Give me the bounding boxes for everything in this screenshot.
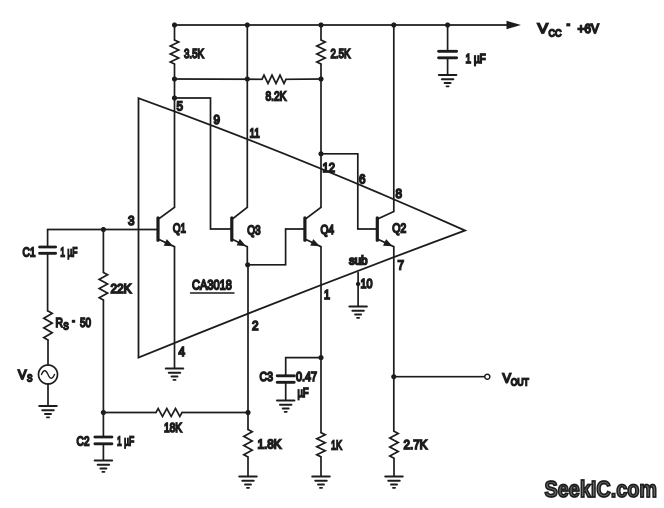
- ground VS: [39, 406, 56, 417]
- label 11: [250, 127, 260, 141]
- svg-text:1K: 1K: [331, 439, 342, 453]
- wire 8.2K row right: [286, 78, 321, 80]
- transistor Q4: [305, 207, 321, 246]
- svg-text:C3: C3: [260, 369, 274, 384]
- node rail/Q2 collector: [391, 22, 396, 27]
- label 1.8K: [258, 437, 283, 452]
- wire substrate pin10 stub: [357, 273, 359, 306]
- label 1K: [331, 439, 342, 453]
- label uF (C3): [298, 387, 309, 401]
- svg-text:3: 3: [128, 213, 135, 228]
- label 1 uF (C2): [117, 435, 134, 449]
- label 5: [177, 99, 184, 114]
- label 9: [214, 112, 221, 127]
- svg-text:50: 50: [80, 317, 91, 331]
- wire Q3 emitter to Q4 base: [248, 229, 305, 265]
- node rail/2.5K: [318, 22, 323, 27]
- svg-text:Q3: Q3: [247, 223, 260, 238]
- source VS sine generator: [39, 365, 58, 384]
- svg-text:8: 8: [396, 186, 403, 201]
- label VCC = +6V: [538, 22, 600, 40]
- capacitor C3: [277, 376, 294, 400]
- resistor 1K: [317, 433, 325, 476]
- wire Q4 emitter drop pin1: [320, 247, 322, 433]
- svg-text:Q2: Q2: [392, 220, 406, 235]
- svg-text:4: 4: [179, 344, 186, 359]
- svg-text:18K: 18K: [164, 421, 182, 436]
- ground substrate: [349, 307, 366, 318]
- label Q3: [247, 223, 260, 238]
- svg-text:OUT: OUT: [511, 377, 529, 388]
- wire C3 branch: [286, 358, 321, 375]
- wire bottom row left: [103, 412, 156, 414]
- label C1: [23, 245, 36, 259]
- label Q1: [173, 222, 186, 236]
- wire input node to Q1 base (pin3): [48, 229, 158, 231]
- label CA3018: [191, 277, 235, 293]
- label 8: [396, 186, 403, 201]
- capacitor C2: [95, 413, 112, 461]
- node 8.2K/pin11: [245, 76, 250, 81]
- svg-text:CA3018: CA3018: [192, 277, 232, 293]
- wire Q1 collector riser pin5: [174, 79, 176, 207]
- node 8.2K/3.5K: [172, 76, 177, 81]
- label sub: [349, 254, 368, 267]
- ground C2: [95, 461, 112, 472]
- svg-text:Q1: Q1: [173, 222, 186, 236]
- label 2.5K: [331, 48, 351, 62]
- resistor RS source resistance: [44, 311, 52, 340]
- svg-text:8.2K: 8.2K: [266, 89, 287, 103]
- ground 1.8K: [239, 477, 256, 488]
- watermark SeekIC.com: [545, 475, 658, 502]
- svg-text:µF: µF: [298, 387, 309, 401]
- resistor 18K: [156, 409, 182, 417]
- label 10: [361, 276, 373, 291]
- resistor 3.5K: [170, 25, 178, 79]
- resistor 1.8K: [244, 413, 252, 477]
- wire RS to VS: [47, 340, 49, 365]
- label 2.7K: [404, 437, 429, 452]
- transistor Q2: [377, 212, 394, 247]
- wire 8.2K row left: [175, 78, 263, 80]
- svg-text:6: 6: [359, 172, 366, 187]
- svg-text:7: 7: [398, 258, 405, 273]
- label 22K: [111, 281, 133, 296]
- svg-text:R: R: [56, 316, 64, 330]
- svg-text:3.5K: 3.5K: [184, 48, 204, 62]
- label 1 uF (bypass): [466, 53, 486, 66]
- svg-text:9: 9: [214, 112, 221, 127]
- label Q2: [392, 220, 406, 235]
- ground 1K: [312, 477, 329, 488]
- node pin10: [356, 282, 360, 286]
- svg-text:Q4: Q4: [321, 223, 335, 238]
- ground Q1 emitter: [166, 369, 183, 380]
- svg-text:SeekIC.com: SeekIC.com: [545, 475, 658, 502]
- label 3: [128, 213, 135, 228]
- svg-text:2: 2: [252, 318, 259, 333]
- svg-text:sub: sub: [349, 254, 368, 267]
- svg-text:1 µF: 1 µF: [466, 53, 486, 66]
- label 3.5K: [184, 48, 204, 62]
- label VOUT: [503, 370, 530, 387]
- svg-text:10: 10: [361, 276, 373, 291]
- label 1 uF (C1): [60, 246, 77, 260]
- label VS: [18, 367, 32, 384]
- svg-text:11: 11: [250, 127, 260, 141]
- resistor 2.5K: [317, 25, 325, 79]
- svg-text:S: S: [27, 373, 32, 384]
- svg-text:+6V: +6V: [578, 22, 600, 37]
- label 8.2K: [266, 89, 287, 103]
- svg-text:1 µF: 1 µF: [60, 246, 77, 260]
- wire Q1 emitter to ground (pin4): [174, 247, 176, 368]
- node pin12 branch: [318, 151, 323, 156]
- node pin5 branch: [172, 95, 177, 100]
- node C3 tap: [318, 355, 323, 360]
- wire Q2 emitter drop pin7: [393, 247, 395, 432]
- label RS = 50: [56, 316, 91, 332]
- svg-text:1: 1: [324, 287, 330, 302]
- svg-text:12: 12: [323, 160, 336, 175]
- resistor 2.7K: [390, 431, 398, 476]
- VCC arrowhead: [507, 21, 522, 29]
- node base/22K: [101, 227, 106, 232]
- transistor Q3: [232, 207, 248, 246]
- transistor Q1: [158, 207, 175, 246]
- label 2: [252, 318, 259, 333]
- svg-text:V: V: [18, 367, 27, 382]
- op-amp triangle CA3018 package outline: [139, 98, 466, 357]
- capacitor C1: [40, 230, 56, 312]
- svg-text:0.47: 0.47: [296, 369, 317, 384]
- wire VCC supply rail: [175, 24, 509, 26]
- label C2: [77, 434, 90, 448]
- resistor 22K: [99, 230, 107, 413]
- label Q4: [321, 223, 335, 238]
- node 22K/18K/C2: [101, 410, 106, 415]
- svg-text:1 µF: 1 µF: [117, 435, 134, 449]
- wire pin12 to Q2 base (pin6): [321, 154, 377, 229]
- svg-text:2.7K: 2.7K: [404, 437, 429, 452]
- label 1: [324, 287, 330, 302]
- node VOUT tap: [391, 374, 396, 379]
- ground bypass cap: [439, 75, 456, 86]
- svg-text:1.8K: 1.8K: [258, 437, 283, 452]
- wire Q3 collector riser pin11: [246, 25, 248, 207]
- node Q3 emitter junction: [245, 262, 250, 267]
- node 8.2K/2.5K: [318, 76, 323, 81]
- svg-text:2.5K: 2.5K: [331, 48, 351, 62]
- label 12: [323, 160, 336, 175]
- label 7: [398, 258, 405, 273]
- node rail/pin11 branch: [245, 22, 250, 27]
- node 18K/1.8K/pin2: [245, 410, 250, 415]
- label 18K: [164, 421, 182, 436]
- capacitor bypass 1uF: [439, 25, 457, 75]
- wire pin5 to Q3 base (pin9): [175, 98, 232, 229]
- resistor 8.2K: [262, 75, 286, 83]
- wire Q4 collector riser: [320, 79, 322, 207]
- node rail/3.5K: [172, 22, 177, 27]
- wire Q2 collector riser pin8: [393, 25, 395, 212]
- wire bottom row right: [182, 412, 248, 414]
- ground C3: [277, 401, 294, 412]
- svg-text:S: S: [63, 321, 68, 332]
- ground 2.7K: [385, 477, 402, 488]
- node rail/bypass cap: [445, 22, 450, 27]
- terminal VOUT open circle: [485, 374, 490, 379]
- label 4: [179, 344, 186, 359]
- wire pin2 drop to bottom row: [247, 265, 249, 413]
- label 0.47: [296, 369, 317, 384]
- wire Q3 emitter drop: [246, 247, 248, 265]
- svg-text:C1: C1: [23, 245, 36, 259]
- wire VS to ground: [47, 384, 49, 406]
- svg-text:CC: CC: [549, 28, 562, 40]
- label 6: [359, 172, 366, 187]
- svg-text:C2: C2: [77, 434, 90, 448]
- svg-text:22K: 22K: [111, 281, 133, 296]
- wire VOUT: [394, 376, 484, 378]
- svg-text:5: 5: [177, 99, 184, 114]
- label C3: [260, 369, 274, 384]
- svg-text:V: V: [538, 22, 549, 37]
